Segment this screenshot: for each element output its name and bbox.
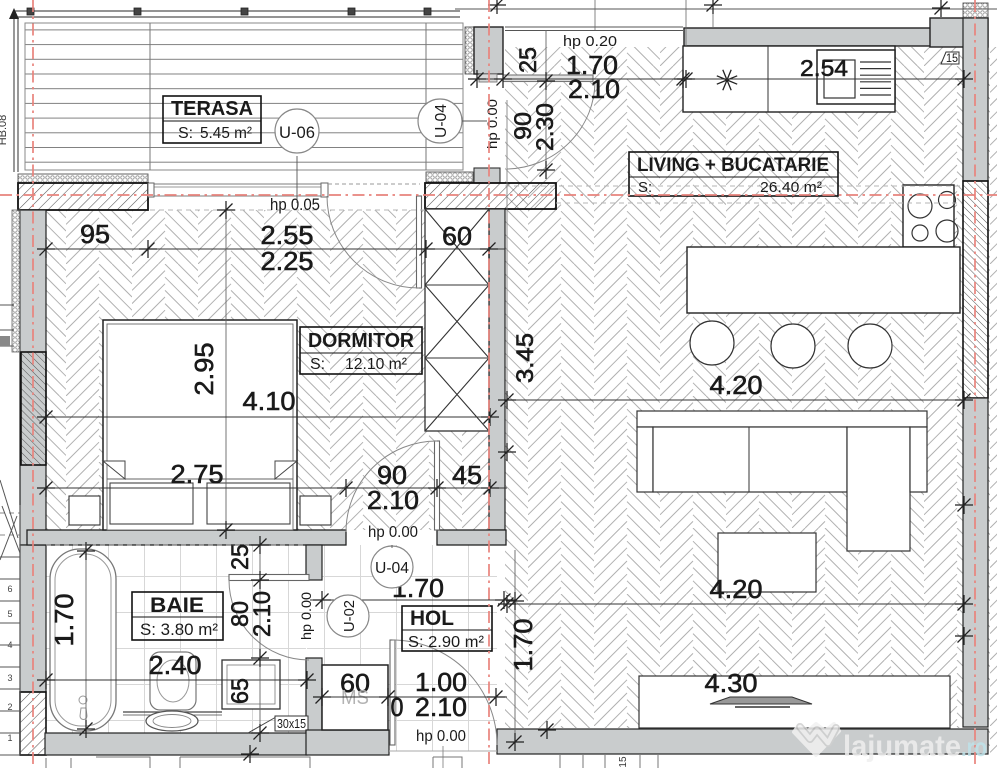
svg-text:LIVING + BUCATARIE: LIVING + BUCATARIE (637, 155, 829, 176)
bedroom herringbone floor (46, 210, 425, 530)
bedroom window hatched block (21, 352, 46, 465)
marker U-04 hol (371, 546, 413, 588)
svg-text:S:: S: (638, 179, 652, 196)
bath right wall above door (306, 545, 322, 580)
terrace door leaf (417, 196, 422, 288)
svg-text:12.10 m²: 12.10 m² (345, 356, 408, 373)
bedroom door swing arc (346, 441, 437, 532)
red axis horizontal (0, 194, 997, 196)
svg-text:BAIE: BAIE (150, 594, 204, 617)
svg-text:4.20: 4.20 (710, 370, 763, 400)
dotted line bath top (46, 544, 306, 546)
insulation strip terrace wall (18, 174, 148, 183)
bedroom door leaf (435, 441, 440, 530)
dotted line living 2 (556, 202, 962, 204)
stove box (903, 185, 954, 247)
svg-text:45: 45 (452, 460, 482, 490)
entry threshold line (389, 750, 497, 752)
svg-text:HB.08: HB.08 (0, 115, 9, 146)
svg-text:4.10: 4.10 (243, 386, 296, 416)
neighbour floor strip right edge (988, 47, 997, 754)
room label DORMITOR (300, 327, 422, 374)
insulation strip left of block (426, 172, 473, 182)
coffee table (718, 533, 816, 592)
watermark lajumate.ro (794, 724, 987, 763)
slider end post right (321, 183, 328, 197)
svg-text:1: 1 (7, 733, 12, 743)
top wall right corner piece (930, 18, 988, 47)
bottom wall right section (497, 729, 988, 754)
svg-text:HOL: HOL (410, 607, 454, 630)
entry door swing arc (393, 640, 498, 745)
room label LIVING + BUCATARIE (629, 152, 838, 196)
wall column terrace-living top (474, 27, 503, 74)
sliding window bar terrace (148, 184, 326, 196)
bed blanket line (107, 478, 293, 480)
toilet (146, 711, 198, 731)
svg-text:2: 2 (7, 702, 12, 712)
washbasin (150, 652, 196, 710)
svg-text:S: 3.80 m²: S: 3.80 m² (140, 620, 218, 639)
fridge inner door (824, 60, 855, 98)
bathroom door swing arc (229, 580, 309, 660)
svg-text:.ro: .ro (961, 732, 987, 762)
bar stool 2 (771, 324, 815, 368)
right wall window hatched (963, 181, 988, 398)
dim 4.20 lower living (507, 603, 964, 605)
entry door leaf (390, 640, 395, 745)
bathtub (50, 549, 116, 731)
dim 4.10 bedroom (46, 416, 490, 418)
bedroom bottom wall (27, 530, 346, 545)
svg-text:hp 0.05: hp 0.05 (270, 195, 320, 214)
bathroom tile floor (46, 545, 306, 733)
dim hol 60/1.00 (315, 696, 507, 698)
terrace door swing arc (327, 196, 419, 288)
svg-text:U-04: U-04 (433, 104, 450, 138)
hallway tile floor (307, 545, 497, 751)
svg-text:4.30: 4.30 (705, 668, 758, 698)
railing post (241, 8, 248, 15)
bar stool 3 (848, 324, 892, 368)
fridge box (817, 50, 895, 104)
marker U-06 (275, 109, 319, 153)
railing post (134, 8, 141, 15)
sofa seat (653, 427, 847, 492)
svg-text:15: 15 (618, 756, 629, 768)
bed (103, 320, 297, 530)
railing post (424, 8, 431, 15)
svg-text:2.40: 2.40 (149, 650, 202, 680)
dim 2.75/90/45 bedroom bottom (46, 487, 507, 489)
column step small (479, 74, 497, 82)
bedroom bottom wall right piece (437, 530, 506, 545)
svg-text:S:: S: (178, 125, 193, 142)
svg-text:26.40 m²: 26.40 m² (760, 179, 822, 196)
slider end post left (148, 183, 154, 197)
sofa left arm (637, 427, 653, 492)
svg-text:4.20: 4.20 (710, 574, 763, 604)
svg-text:U-06: U-06 (279, 123, 315, 142)
30x15 label (248, 717, 276, 733)
TV on cabinet (710, 697, 812, 704)
extension stubs top (594, 0, 596, 30)
svg-text:2.30: 2.30 (532, 103, 559, 151)
sink symbol star (717, 70, 737, 90)
dim 1.70 bathtub (85, 549, 87, 731)
svg-text:25: 25 (515, 47, 542, 73)
svg-text:25: 25 (227, 544, 254, 570)
nightstand left (69, 496, 100, 525)
dim 25/80/65 bath vertical (259, 541, 261, 735)
living room herringbone floor (505, 47, 963, 728)
insulation top right corner (963, 3, 988, 18)
room label BAIE (132, 592, 223, 640)
red axis vertical B (488, 0, 490, 768)
railing corner mark (9, 8, 19, 19)
terrace decking (25, 23, 463, 170)
kitchen island counter (687, 247, 960, 313)
fridge shelves (860, 62, 891, 95)
right wall upper gray (963, 18, 988, 181)
svg-text:2.95: 2.95 (189, 343, 219, 396)
dotted line bedroom top (150, 209, 425, 211)
deck joint line right (425, 23, 427, 170)
dim 1.70 hol top (310, 599, 515, 601)
svg-text:hp 0.00: hp 0.00 (298, 592, 314, 640)
left wall bedroom (20, 210, 46, 545)
svg-text:6: 6 (7, 584, 12, 594)
left wall insulation strip (12, 210, 20, 352)
wall below MS niche (306, 730, 389, 755)
blanket fold corner left (103, 461, 125, 479)
room label HOL (402, 606, 492, 651)
svg-text:0: 0 (391, 692, 404, 722)
sofa chaise (847, 427, 910, 551)
svg-text:2.10: 2.10 (367, 485, 419, 515)
right wall ticks (955, 496, 973, 514)
TV cabinet (639, 676, 950, 728)
dim 2.95 bedroom vertical (225, 207, 227, 531)
svg-text:S: 2.90 m²: S: 2.90 m² (408, 634, 485, 651)
dim line 95/2.55/60 y249 (40, 248, 505, 250)
neighbour balcony marks upper left (0, 305, 14, 346)
svg-text:1.70: 1.70 (508, 619, 538, 672)
living top wall (684, 28, 942, 46)
door U-04 leaf (503, 75, 593, 82)
marker U-04 terrace (418, 99, 462, 143)
washing machine niche MS (322, 665, 388, 730)
svg-text:DORMITOR: DORMITOR (308, 330, 415, 352)
hatched wall block terrace-living (425, 183, 556, 209)
svg-text:lajumate: lajumate (843, 730, 961, 763)
wall right of wardrobe (489, 209, 505, 530)
terrace-bedroom wall block hatched (18, 183, 148, 210)
svg-text:5: 5 (7, 609, 12, 619)
blanket fold corner right (275, 461, 297, 479)
svg-text:4: 4 (7, 640, 12, 650)
svg-text:2.75: 2.75 (171, 459, 224, 489)
svg-text:hp 0.00: hp 0.00 (484, 99, 500, 149)
svg-text:2.54: 2.54 (800, 55, 848, 81)
svg-text:3.45: 3.45 (512, 333, 539, 383)
dotted line living 1 (505, 185, 962, 187)
column lower block (474, 168, 500, 183)
svg-text:TERASA: TERASA (171, 98, 253, 120)
red axis vertical C (974, 0, 976, 768)
dim 1.70 vertical right of hol (514, 550, 516, 742)
svg-text:1.70: 1.70 (49, 594, 79, 647)
sofa right arm (910, 427, 927, 492)
svg-text:15: 15 (946, 51, 958, 65)
svg-text:5.45 m²: 5.45 m² (200, 125, 253, 142)
terrace railing top (14, 11, 460, 172)
nightstand right (300, 496, 331, 525)
stove burners (908, 194, 932, 218)
dim line top y79 (470, 78, 964, 80)
pillow right (207, 483, 290, 524)
pillow left (110, 483, 193, 524)
vanity counter line (123, 711, 222, 713)
room label TERASA (163, 96, 261, 143)
red axis vertical A (32, 0, 34, 768)
hp leader line entry (442, 746, 444, 768)
bath right wall below door (306, 658, 322, 737)
marker U-02 (327, 595, 369, 637)
bedroom floor below wardrobe (425, 431, 489, 530)
railing post (348, 8, 355, 15)
shower/washer box (222, 660, 280, 709)
exterior staircase (0, 557, 20, 755)
bottom wall left section (45, 733, 307, 755)
dim 2.40 bath (46, 679, 307, 681)
svg-text:95: 95 (80, 219, 110, 249)
svg-text:MS: MS (341, 687, 369, 709)
svg-text:hp 0.20: hp 0.20 (563, 33, 617, 50)
counter divider (767, 46, 769, 112)
neighbour rooms below (46, 757, 310, 768)
left wall bottom hatched block (20, 692, 46, 755)
bathroom door leaf (229, 575, 309, 581)
svg-text:3: 3 (7, 673, 12, 683)
svg-text:U-04: U-04 (375, 560, 409, 577)
svg-text:U-02: U-02 (341, 600, 358, 632)
deck joint line (149, 23, 151, 170)
sofa cushion divider (748, 427, 750, 492)
dim 4.20 upper living (507, 399, 964, 401)
svg-text:2.10: 2.10 (415, 692, 467, 722)
svg-text:hp 0.00: hp 0.00 (416, 728, 466, 745)
right wall lower gray (963, 398, 988, 727)
flag 15 marker (941, 52, 959, 64)
svg-text:60: 60 (442, 221, 472, 251)
deck border (25, 23, 463, 170)
svg-text:30x15: 30x15 (277, 716, 306, 731)
svg-text:65: 65 (227, 678, 254, 704)
kitchen counter top (683, 46, 895, 112)
left wall bathroom (20, 545, 46, 692)
svg-text:2.10: 2.10 (249, 591, 276, 637)
dim 90/2.30 door vertical (545, 30, 547, 172)
top boundary thin line (455, 8, 997, 10)
living top window hp 0.20 (505, 27, 683, 31)
sofa backrest (637, 411, 927, 427)
bar stool 1 (690, 321, 734, 365)
svg-text:2.25: 2.25 (261, 246, 314, 276)
terrace door threshold dashed (328, 183, 420, 185)
railing post (27, 8, 34, 15)
door U-04 swing arc (507, 81, 595, 169)
wardrobe with X boxes (425, 209, 489, 431)
svg-text:hp 0.00: hp 0.00 (368, 524, 418, 541)
svg-text:2.10: 2.10 (568, 74, 620, 104)
insulation strip top column (465, 27, 474, 74)
svg-text:S:: S: (310, 356, 325, 373)
bed inner line (107, 324, 293, 530)
